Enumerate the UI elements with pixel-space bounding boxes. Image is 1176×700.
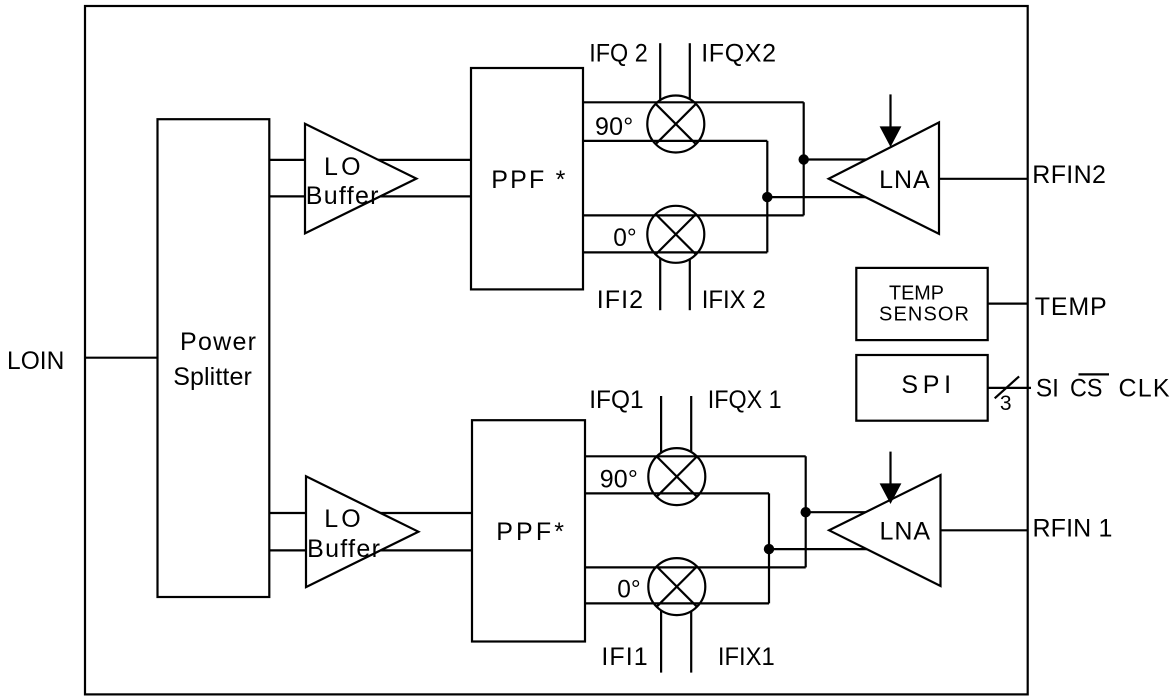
wire LNA1 output lower to mixers bbox=[769, 548, 880, 550]
wire PPF1 0-deg output lower (through I1 mixer) bbox=[585, 602, 769, 604]
LNA amplifier channel 1 bbox=[829, 475, 940, 586]
svg-text:0°: 0° bbox=[613, 224, 636, 252]
svg-text:CLK: CLK bbox=[1118, 374, 1169, 402]
wire LNA1 output upper to mixers bbox=[806, 511, 880, 513]
wire PPF2 0-deg output lower (through I2 mixer) bbox=[583, 251, 767, 253]
svg-text:IFQX2: IFQX2 bbox=[701, 39, 776, 67]
wire vertical RF bus B channel 1 bbox=[768, 493, 770, 603]
svg-text:IFQ 2: IFQ 2 bbox=[589, 39, 647, 67]
overline for CS bbox=[1079, 373, 1110, 375]
svg-text:IFQX 1: IFQX 1 bbox=[708, 386, 782, 414]
wire vertical RF bus A channel 2 bbox=[803, 102, 805, 215]
wire IFQ2 output stub bbox=[659, 43, 661, 100]
svg-text:RFIN2: RFIN2 bbox=[1032, 161, 1106, 189]
svg-text:Buffer: Buffer bbox=[306, 182, 379, 210]
wire PPF1 90-deg output upper (through Q1 mixer) bbox=[585, 455, 806, 457]
svg-text:IFI1: IFI1 bbox=[601, 643, 647, 671]
wire PPF1 90-deg output lower (through Q1 mixer) bbox=[585, 492, 769, 494]
junction node channel 1 lower bbox=[764, 544, 774, 554]
wire splitter to LO buffer 1 / PPF 1 upper bbox=[269, 512, 472, 514]
svg-text:SENSOR: SENSOR bbox=[879, 304, 969, 326]
svg-text:TEMP: TEMP bbox=[1035, 293, 1107, 321]
wire RFIN2 input to LNA2 bbox=[939, 178, 1028, 180]
wire LNA2 output upper to mixers bbox=[804, 158, 880, 160]
svg-text:LNA: LNA bbox=[879, 166, 930, 194]
mixer I2 (0deg) channel 2 bbox=[647, 206, 704, 263]
gain control arrow channel 2 bbox=[880, 94, 902, 147]
wire IFQX1 output stub bbox=[690, 396, 692, 452]
wire IFI1 output stub bbox=[660, 610, 662, 672]
wire vertical RF bus A channel 1 bbox=[805, 456, 807, 567]
wire SPI bus bbox=[988, 387, 1031, 389]
svg-text:TEMP: TEMP bbox=[889, 282, 944, 304]
svg-text:CS: CS bbox=[1070, 374, 1102, 402]
LO buffer amplifier channel 2 bbox=[305, 124, 416, 234]
mixer I1 (0deg) channel 1 bbox=[648, 558, 705, 615]
svg-text:Splitter: Splitter bbox=[173, 363, 252, 391]
svg-text:IFQ1: IFQ1 bbox=[589, 386, 643, 414]
svg-text:IFIX1: IFIX1 bbox=[718, 643, 775, 671]
svg-text:LOIN: LOIN bbox=[7, 347, 64, 375]
wire PPF2 0-deg output upper (through I2 mixer) bbox=[583, 214, 804, 216]
wire IFIX2 output stub bbox=[689, 259, 691, 310]
wire TEMP output bbox=[988, 303, 1028, 305]
temperature sensor block bbox=[856, 268, 987, 340]
svg-text:IFI2: IFI2 bbox=[597, 286, 643, 314]
svg-text:0°: 0° bbox=[617, 576, 640, 604]
SPI block bbox=[856, 355, 987, 421]
LO buffer amplifier channel 1 bbox=[306, 476, 418, 587]
wire splitter to LO buffer 1 / PPF 1 lower bbox=[269, 549, 472, 551]
svg-text:SI: SI bbox=[1036, 374, 1059, 402]
svg-text:LNA: LNA bbox=[880, 517, 931, 545]
junction node channel 2 lower bbox=[762, 192, 772, 202]
junction node channel 2 upper bbox=[799, 154, 809, 164]
gain control arrow channel 1 bbox=[880, 452, 902, 504]
mixer Q1 (90deg) channel 1 bbox=[648, 448, 705, 505]
LNA amplifier channel 2 bbox=[829, 122, 939, 233]
svg-text:LO: LO bbox=[324, 153, 361, 181]
svg-text:3: 3 bbox=[1000, 392, 1012, 415]
svg-text:LO: LO bbox=[324, 505, 361, 533]
wire PPF2 90-deg output upper (through Q2 mixer) bbox=[583, 101, 804, 103]
mixer Q2 (90deg) channel 2 bbox=[647, 96, 704, 153]
svg-text:SPI: SPI bbox=[901, 371, 951, 399]
svg-text:90°: 90° bbox=[600, 466, 638, 494]
svg-text:IFIX 2: IFIX 2 bbox=[702, 286, 766, 314]
wire splitter to LO buffer 2 / PPF 2 lower bbox=[269, 195, 471, 197]
wire splitter to LO buffer 2 / PPF 2 upper bbox=[269, 159, 471, 161]
wire LNA2 output lower to mixers bbox=[767, 196, 880, 198]
PPF block channel 1 bbox=[472, 420, 585, 641]
wire IFI2 output stub bbox=[659, 258, 661, 310]
svg-text:Power: Power bbox=[180, 328, 256, 356]
wire IFIX1 output stub bbox=[690, 611, 692, 673]
svg-text:PPF*: PPF* bbox=[496, 518, 564, 546]
PPF block channel 2 bbox=[471, 68, 583, 289]
wire PPF1 0-deg output upper (through I1 mixer) bbox=[585, 566, 806, 568]
svg-text:RFIN 1: RFIN 1 bbox=[1032, 515, 1112, 543]
junction node channel 1 upper bbox=[801, 507, 811, 517]
wire IFQX2 output stub bbox=[689, 43, 691, 99]
svg-text:90°: 90° bbox=[595, 113, 633, 141]
wire IFQ1 output stub bbox=[660, 396, 662, 453]
wire PPF2 90-deg output lower (through Q2 mixer) bbox=[583, 140, 767, 142]
wire vertical RF bus B channel 2 bbox=[766, 141, 768, 253]
power splitter block bbox=[158, 119, 270, 597]
wire LOIN input to power splitter bbox=[86, 357, 158, 359]
svg-text:Buffer: Buffer bbox=[307, 535, 380, 563]
bus width slash mark bbox=[995, 376, 1019, 398]
wire RFIN1 input to LNA1 bbox=[941, 529, 1029, 531]
chip outline border bbox=[85, 6, 1028, 694]
